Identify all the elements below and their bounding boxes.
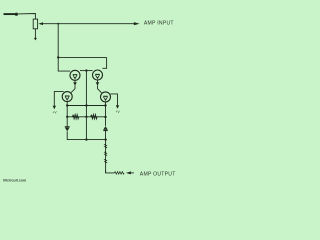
svg-text:+V: +V	[116, 110, 121, 114]
wire D2 down	[105, 131, 107, 140]
wire base bus top	[58, 56, 106, 58]
wire Q2 base	[102, 57, 106, 68]
wire center column	[85, 71, 87, 140]
wire pot bottom lead	[34, 29, 36, 38]
node input junction	[57, 23, 59, 25]
wire input drop	[57, 24, 59, 58]
node rail2 right	[104, 116, 106, 118]
svg-text:00circuit.com: 00circuit.com	[3, 179, 26, 183]
wire amp output tail	[131, 172, 134, 174]
resistor R4 vertical	[105, 144, 107, 163]
transistor Q1	[70, 70, 80, 80]
amp input arrowhead	[134, 22, 140, 25]
node rail1 right	[104, 104, 106, 106]
node rail3 center	[85, 138, 87, 140]
diode D2	[103, 126, 108, 130]
wire output elbow	[106, 170, 115, 173]
transistor Q2	[93, 70, 103, 80]
wire Q3 collector down	[66, 102, 68, 127]
supply arrow left	[53, 106, 56, 110]
wire rail3	[86, 139, 105, 141]
Q1 emitter arrow	[73, 82, 77, 85]
diode D1	[65, 127, 70, 132]
wire Q2 emitter to Q4	[98, 85, 102, 93]
wire thick input lead	[4, 13, 16, 15]
pot wiper arrow	[38, 22, 43, 25]
wire rail lower	[67, 116, 105, 118]
svg-text:+V: +V	[52, 110, 57, 114]
wire Q1 emitter	[74, 80, 76, 82]
wire Q1 base	[58, 57, 70, 71]
wire wiper to amp input	[43, 23, 134, 25]
svg-text:AMP INPUT: AMP INPUT	[144, 21, 174, 27]
potentiometer R1 body	[33, 19, 37, 29]
wire Q3 base to supply	[54, 91, 63, 106]
resistor R3	[91, 115, 97, 119]
wire rail upper	[67, 105, 105, 107]
node center column top	[85, 69, 87, 71]
node input terminal dot	[15, 13, 18, 16]
wire Q4 base to supply	[110, 94, 117, 106]
wire Q2 emitter	[97, 80, 99, 82]
resistor R5 output	[115, 172, 125, 175]
node rail1 left	[66, 104, 68, 106]
supply arrow right	[116, 105, 119, 109]
node rail2 left	[66, 116, 68, 118]
wire D1 to rail3	[67, 131, 86, 139]
resistor R2	[73, 115, 79, 119]
wire Q1-Q2 collector link	[80, 70, 93, 72]
Q2 emitter arrow	[96, 82, 100, 85]
node base-feed junction	[57, 56, 59, 58]
node rail2 center	[85, 116, 87, 118]
wire output column	[105, 140, 107, 173]
node rail1 center	[85, 104, 87, 106]
wire Q1 emitter to Q3	[71, 85, 75, 92]
wire input to pot	[18, 14, 35, 20]
pot bottom arrow to rail	[34, 38, 37, 41]
transistor Q4	[101, 92, 111, 102]
svg-text:AMP OUTPUT: AMP OUTPUT	[140, 172, 176, 178]
transistor Q3	[62, 92, 72, 102]
wire Q4 collector down	[105, 102, 107, 126]
node rail3 right	[104, 138, 106, 140]
amp output arrowhead	[126, 171, 131, 174]
